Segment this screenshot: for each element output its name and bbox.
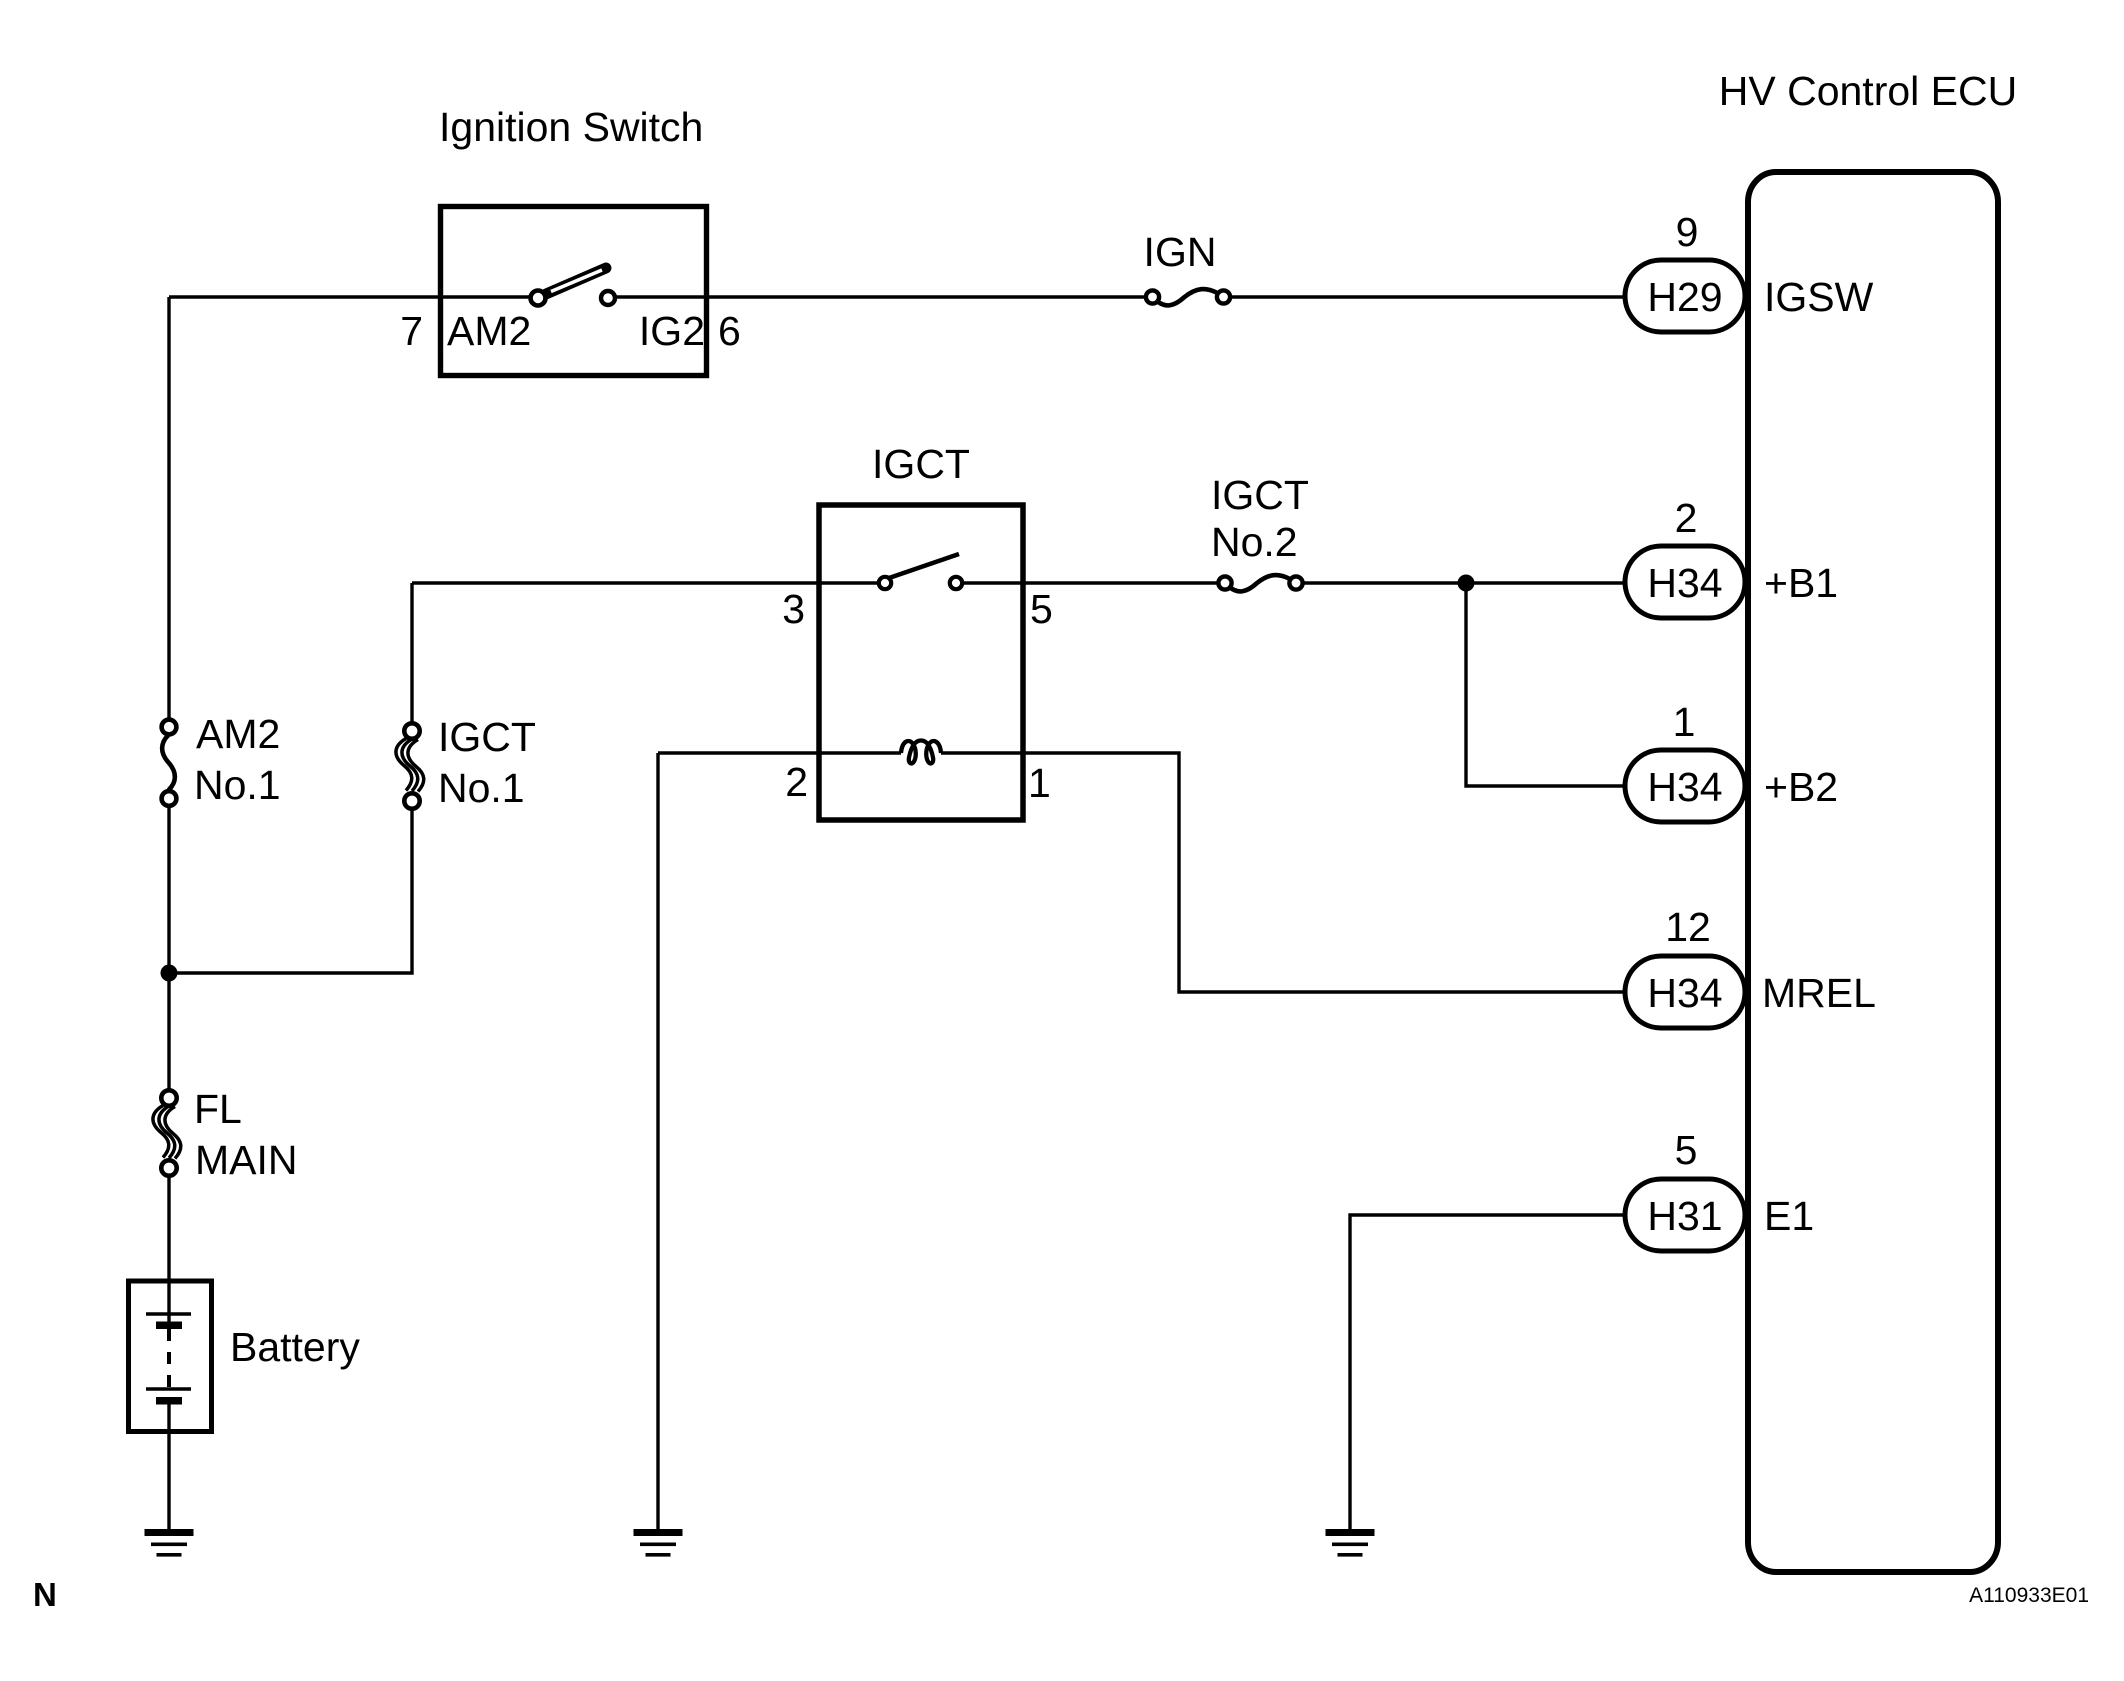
ground under E1: [1326, 1529, 1375, 1557]
svg-text:1: 1: [1673, 699, 1696, 745]
svg-text:IG2: IG2: [639, 308, 705, 354]
svg-text:H34: H34: [1647, 764, 1722, 810]
wire: left vertical from AM2 No.1 fuse to FL MAIN: [167, 806, 170, 1091]
svg-text:+B1: +B1: [1764, 560, 1838, 606]
ground under relay coil: [634, 1529, 683, 1557]
svg-text:FL: FL: [194, 1086, 242, 1132]
fuse IGCT No.2: [1218, 575, 1302, 591]
svg-text:IGCT: IGCT: [872, 441, 970, 487]
svg-text:3: 3: [782, 586, 805, 632]
ignition switch contact AM2: [531, 291, 546, 306]
wire: IGSW row from left vertical to ignition switch AM2 contact: [169, 295, 530, 298]
battery positive pole bar: [156, 1322, 182, 1330]
svg-text:5: 5: [1675, 1127, 1698, 1173]
svg-text:No.2: No.2: [1211, 519, 1298, 565]
svg-text:H34: H34: [1647, 970, 1722, 1016]
wire: left battery feed vertical from IGSW row to AM2 No.1 fuse: [167, 297, 170, 720]
svg-text:H31: H31: [1647, 1193, 1722, 1239]
relay IGCT box: [819, 505, 1023, 820]
svg-text:MREL: MREL: [1762, 970, 1876, 1016]
wire: coil ground riser down to ground: [656, 753, 659, 1530]
svg-text:HV Control ECU: HV Control ECU: [1719, 68, 2017, 114]
wire: relay coil right lead to MREL drop: [941, 753, 1627, 992]
relay contact lever: [889, 554, 959, 578]
svg-text:9: 9: [1676, 209, 1699, 255]
svg-text:AM2: AM2: [447, 308, 531, 354]
svg-text:H29: H29: [1647, 274, 1722, 320]
fusible link IGCT No.1: [396, 723, 424, 808]
connector H34 (+B1): [1625, 546, 1745, 618]
wire: riser from IGCT No.1 fuse up to relay contact row: [410, 583, 413, 724]
svg-text:12: 12: [1665, 904, 1711, 950]
connector H31 (E1): [1625, 1179, 1745, 1251]
connector H29 (IGSW): [1625, 260, 1745, 332]
relay contact pin 3: [879, 577, 891, 589]
svg-text:2: 2: [785, 759, 808, 805]
svg-text:2: 2: [1675, 495, 1698, 541]
wire: relay coil left lead to ground riser: [658, 751, 901, 754]
svg-text:6: 6: [718, 308, 741, 354]
ignition switch contact IG2: [601, 291, 615, 305]
wire: relay pin 5 contact to IGCT No.2 fuse: [962, 581, 1220, 584]
fuse AM2 No.1: [162, 720, 177, 806]
relay contact pin 5: [950, 577, 962, 589]
svg-text:IGSW: IGSW: [1764, 274, 1874, 320]
battery positive plate: [146, 1312, 191, 1316]
wire: branch from junction to IGCT No.1 fuse riser: [169, 808, 412, 973]
relay coil: [901, 741, 941, 764]
svg-text:N: N: [33, 1576, 57, 1613]
svg-text:5: 5: [1030, 586, 1053, 632]
svg-text:MAIN: MAIN: [195, 1137, 298, 1183]
node: junction of AM2 feed and IGCT No.1 branch: [161, 965, 178, 982]
battery internal dashed link: [167, 1329, 171, 1389]
svg-text:No.1: No.1: [438, 765, 525, 811]
battery negative plate: [146, 1387, 191, 1391]
wire: E1 row from ground riser to H31 connector: [1350, 1215, 1627, 1530]
connector H34 (MREL): [1625, 956, 1745, 1028]
svg-text:H34: H34: [1647, 560, 1722, 606]
wire: IGCT No.2 fuse to +B1 connector: [1302, 581, 1627, 584]
wire: IGSW row from IG2 contact to IGN fuse: [616, 295, 1147, 298]
fuse IGN: [1146, 289, 1230, 305]
svg-text:E1: E1: [1764, 1193, 1814, 1239]
wire: junction down and right to +B2 connector: [1466, 583, 1627, 786]
svg-text:IGN: IGN: [1144, 229, 1217, 275]
svg-text:IGCT: IGCT: [1211, 472, 1309, 518]
battery box: [129, 1281, 212, 1432]
svg-text:Ignition Switch: Ignition Switch: [439, 104, 703, 150]
wire: IGSW row from IGN fuse to H29 connector: [1229, 295, 1627, 298]
wire: relay contact row from riser to relay pin 3 contact: [412, 581, 879, 584]
svg-text:AM2: AM2: [196, 711, 280, 757]
svg-text:1: 1: [1028, 760, 1051, 806]
battery negative pole bar: [156, 1397, 182, 1405]
ground under battery: [145, 1529, 194, 1557]
ignition switch box: [441, 207, 707, 376]
node: junction feeding +B2: [1458, 575, 1475, 592]
HV Control ECU box: [1748, 172, 1998, 1572]
fusible link FL MAIN: [153, 1090, 181, 1175]
svg-text:IGCT: IGCT: [438, 714, 536, 760]
svg-text:7: 7: [400, 308, 423, 354]
wire: battery negative to ground: [167, 1401, 170, 1530]
wire: left vertical from FL MAIN to battery: [167, 1176, 170, 1322]
svg-text:Battery: Battery: [230, 1324, 360, 1370]
svg-text:+B2: +B2: [1764, 764, 1838, 810]
svg-text:A110933E01: A110933E01: [1969, 1584, 2089, 1607]
svg-text:No.1: No.1: [194, 762, 281, 808]
ignition switch lever: [546, 268, 606, 294]
connector H34 (+B2): [1625, 750, 1745, 822]
